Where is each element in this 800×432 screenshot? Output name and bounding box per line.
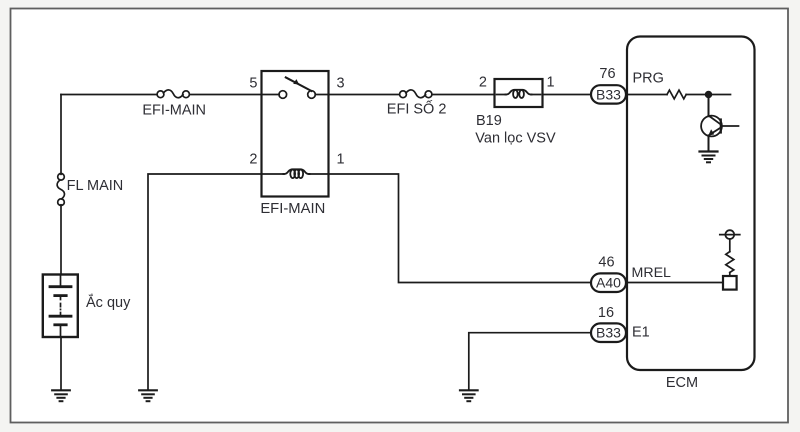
wire through B19 xyxy=(497,94,541,96)
svg-text:1: 1 xyxy=(337,152,345,168)
svg-text:46: 46 xyxy=(598,255,614,271)
svg-text:2: 2 xyxy=(479,75,487,91)
svg-text:B33: B33 xyxy=(596,325,621,341)
svg-text:5: 5 xyxy=(249,75,257,91)
wire square to resistor xyxy=(729,273,731,277)
svg-text:3: 3 xyxy=(337,75,345,91)
ground (E1) xyxy=(460,389,478,391)
svg-text:E1: E1 xyxy=(632,325,650,341)
svg-text:B19: B19 xyxy=(476,113,502,129)
svg-text:Van lọc VSV: Van lọc VSV xyxy=(475,131,556,147)
wire B19 pin 1 to connector B33 xyxy=(543,94,592,96)
wire battery feed vertical xyxy=(60,95,62,175)
svg-text:EFI-MAIN: EFI-MAIN xyxy=(260,201,325,217)
wire fuse to B19 pin 2 xyxy=(432,94,495,96)
battery plates xyxy=(60,275,62,287)
svg-text:EFI-MAIN: EFI-MAIN xyxy=(142,103,206,119)
fuse EFI-MAIN xyxy=(157,91,164,98)
B19 VSV box xyxy=(495,79,543,107)
circle terminal (B+) xyxy=(725,230,734,239)
wire PRG into ECM xyxy=(626,94,667,96)
ground (relay) xyxy=(139,389,157,391)
transistor Q (ECM output) xyxy=(701,116,722,137)
svg-text:Ắc quy: Ắc quy xyxy=(86,293,131,311)
wire relay pin1 to corner to MREL xyxy=(309,174,592,283)
connector B33 pin 16 oval (E1) xyxy=(591,323,626,342)
B19 coil xyxy=(506,90,532,95)
wire resistor to circle terminal xyxy=(729,239,731,252)
relay switch arm xyxy=(286,77,312,91)
relay coil xyxy=(284,169,310,174)
wire emitter to ground xyxy=(708,136,710,152)
svg-text:16: 16 xyxy=(598,305,614,321)
wire resistor to node and stub xyxy=(686,94,730,96)
ECM box xyxy=(627,37,755,371)
svg-text:2: 2 xyxy=(249,152,257,168)
svg-text:EFI SỐ 2: EFI SỐ 2 xyxy=(387,100,447,118)
svg-text:1: 1 xyxy=(547,75,555,91)
connector A40 pin 46 oval xyxy=(591,273,626,292)
svg-text:MREL: MREL xyxy=(632,265,672,281)
svg-text:76: 76 xyxy=(599,66,615,82)
fuse EFI SO 2 xyxy=(400,91,407,98)
svg-text:PRG: PRG xyxy=(633,70,664,86)
wire fuse to relay pin 5 and switch xyxy=(189,94,279,96)
wire B+ top horizontal left segment xyxy=(61,94,157,96)
relay EFI-MAIN box xyxy=(262,71,329,197)
resistor (PRG) xyxy=(667,90,686,99)
MREL internal square terminal xyxy=(723,276,737,290)
battery Ac quy box xyxy=(43,275,78,338)
relay switch contact circles xyxy=(279,91,287,99)
svg-text:FL MAIN: FL MAIN xyxy=(67,178,124,194)
ground (battery) xyxy=(52,389,70,391)
ground (transistor emitter) xyxy=(700,150,718,152)
wire relay coil pin2 left and down to ground xyxy=(148,174,284,390)
svg-text:B33: B33 xyxy=(596,86,621,102)
svg-text:ECM: ECM xyxy=(666,375,698,391)
wire relay pin 3 to fuse EFI SO 2 xyxy=(315,94,399,96)
fusible link FL MAIN xyxy=(58,174,65,181)
wire FL MAIN to battery xyxy=(60,205,62,275)
resistor (MREL pull-up, vertical) xyxy=(726,252,734,273)
svg-text:A40: A40 xyxy=(596,275,621,291)
connector B33 pin 76 oval xyxy=(591,85,626,103)
node junction xyxy=(706,92,712,98)
wire node down to transistor xyxy=(708,95,710,117)
wire E1 to ground xyxy=(469,333,591,390)
wire MREL into ECM to square xyxy=(626,282,723,284)
